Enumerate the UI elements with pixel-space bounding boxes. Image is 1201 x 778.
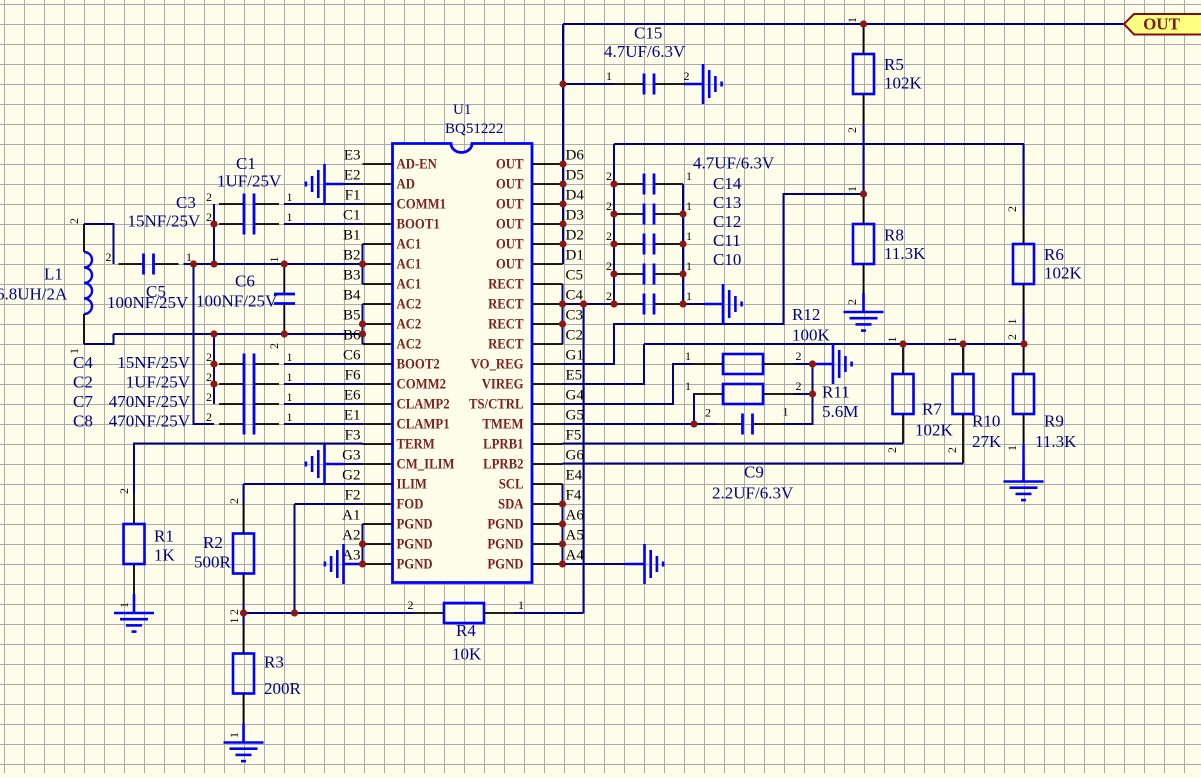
junction (614,304): [610, 300, 617, 307]
junction (362.5,544): [359, 540, 366, 547]
resistor R7: [893, 374, 914, 414]
svg-text:R5: R5: [884, 55, 904, 74]
wire cap bank left bracket: [613, 144, 615, 304]
pin E6 (CLAMP2): [344, 388, 450, 412]
svg-text:PGND: PGND: [397, 556, 433, 572]
ground at AD pin: [306, 164, 344, 204]
wire C1/C3 left join: [213, 204, 215, 264]
svg-text:AD-EN: AD-EN: [397, 156, 437, 172]
pin A1 (PGND): [342, 508, 433, 532]
junction (614,274): [610, 270, 617, 277]
svg-text:B4: B4: [343, 288, 361, 304]
junction (193.5,264): [190, 260, 197, 267]
svg-text:TS/CTRL: TS/CTRL: [469, 396, 524, 412]
svg-text:TERM: TERM: [397, 436, 435, 452]
svg-text:AD: AD: [397, 176, 416, 192]
junction (563,224): [559, 220, 566, 227]
svg-text:10K: 10K: [452, 645, 482, 664]
wire TS/CTRL to R12: [563, 364, 694, 404]
svg-text:200R: 200R: [264, 679, 302, 698]
svg-text:100K: 100K: [792, 326, 831, 345]
wire L1 pin1 to AC2: [84, 334, 114, 344]
R6 pins: [1023, 214, 1025, 244]
junction (563,84): [559, 80, 566, 87]
svg-text:1: 1: [685, 349, 691, 363]
svg-text:COMM2: COMM2: [397, 376, 447, 392]
svg-text:AC2: AC2: [397, 336, 422, 352]
wire AC1 pin bracket: [362, 244, 364, 284]
svg-text:C3: C3: [566, 308, 584, 324]
svg-text:1: 1: [287, 210, 293, 224]
svg-text:F5: F5: [566, 428, 582, 444]
ground at R12: [814, 344, 852, 384]
svg-text:RECT: RECT: [488, 276, 523, 292]
junction (683,214): [679, 210, 686, 217]
junction (284.3,264): [281, 260, 288, 267]
R10 pins: [962, 344, 964, 374]
svg-text:1: 1: [227, 732, 241, 738]
svg-text:AC1: AC1: [397, 276, 422, 292]
svg-text:ILIM: ILIM: [397, 476, 428, 492]
resistor R3: [233, 654, 254, 694]
svg-text:COMM1: COMM1: [397, 196, 447, 212]
pin G5 (TMEM): [482, 408, 583, 432]
pin F5 (LPRB1): [483, 428, 581, 452]
svg-text:BOOT1: BOOT1: [397, 216, 440, 232]
resistor R6: [1013, 244, 1034, 284]
svg-text:C13: C13: [713, 193, 741, 212]
svg-text:2: 2: [705, 406, 711, 420]
junction (563,244): [559, 240, 566, 247]
svg-text:C6: C6: [235, 272, 255, 291]
junction (614,184): [610, 180, 617, 187]
svg-text:G2: G2: [342, 468, 360, 484]
svg-text:LPRB2: LPRB2: [483, 456, 524, 472]
svg-text:L1: L1: [44, 265, 63, 284]
pin G2 (ILIM): [342, 468, 427, 492]
pin F1 (COMM1): [345, 188, 447, 212]
svg-text:1: 1: [845, 17, 859, 23]
svg-text:2.2UF/6.3V: 2.2UF/6.3V: [712, 484, 794, 503]
svg-text:R10: R10: [972, 412, 1000, 431]
wire C9 pin1 riser: [783, 394, 813, 424]
svg-text:4.7UF/6.3V: 4.7UF/6.3V: [604, 42, 686, 61]
svg-text:R3: R3: [264, 653, 284, 672]
pin E1 (CLAMP1): [344, 408, 450, 432]
svg-text:2: 2: [845, 127, 859, 133]
resistor R5: [853, 54, 874, 94]
pin G6 (LPRB2): [483, 448, 584, 472]
resistor R9: [1013, 374, 1034, 414]
pin E2 (AD): [344, 168, 415, 192]
junction (562.5,504): [559, 500, 566, 507]
resistor R12: [723, 354, 763, 374]
svg-text:E5: E5: [566, 368, 583, 384]
wire RECT bus y=144: [614, 143, 1024, 145]
svg-text:D4: D4: [566, 188, 585, 204]
junction (362.5,324): [359, 320, 366, 327]
resistor R1: [124, 524, 145, 564]
wire R4 pin1 to riser: [514, 612, 584, 614]
svg-text:1: 1: [287, 350, 293, 364]
ground at CM_ILIM pin: [306, 444, 344, 484]
svg-text:E4: E4: [566, 468, 583, 484]
svg-text:R4: R4: [456, 621, 476, 640]
capacitor C2: [219, 374, 279, 395]
wire VO_REG to row324: [563, 194, 864, 364]
svg-text:OUT: OUT: [496, 176, 524, 192]
svg-text:1: 1: [1005, 319, 1019, 325]
svg-text:2: 2: [408, 598, 414, 612]
svg-text:R1: R1: [154, 527, 174, 546]
svg-text:2: 2: [227, 498, 241, 504]
svg-text:15NF/25V: 15NF/25V: [117, 353, 190, 372]
junction (284.3,334): [281, 330, 288, 337]
svg-text:C10: C10: [713, 250, 741, 269]
R7 pins: [902, 344, 904, 374]
junction (214,224): [210, 220, 217, 227]
junction (614,214): [610, 210, 617, 217]
svg-text:B5: B5: [343, 308, 361, 324]
ground at R8: [844, 293, 884, 331]
pin D6 (OUT): [496, 148, 584, 172]
svg-text:OUT: OUT: [496, 216, 524, 232]
svg-text:D5: D5: [566, 168, 584, 184]
pin F6 (COMM2): [345, 368, 447, 392]
svg-text:6.8UH/2A: 6.8UH/2A: [0, 285, 68, 304]
svg-text:11.3K: 11.3K: [884, 244, 926, 263]
wire COMM2 row: [284, 383, 363, 385]
svg-text:2: 2: [117, 488, 131, 494]
svg-text:1: 1: [885, 337, 899, 343]
svg-text:AC1: AC1: [397, 256, 422, 272]
wire R6 pin1 stub: [1023, 314, 1025, 344]
svg-text:E3: E3: [344, 148, 361, 164]
capacitor C4: [219, 354, 279, 375]
junction (694,424): [690, 420, 697, 427]
pin F3 (TERM): [345, 428, 435, 452]
svg-text:1: 1: [117, 602, 131, 608]
wire R2 pin1 to node: [243, 604, 245, 614]
wire riser RECT to R4: [583, 304, 585, 613]
svg-text:1: 1: [267, 257, 281, 263]
svg-text:2: 2: [796, 349, 802, 363]
capacitor C5: [119, 254, 179, 275]
svg-text:1UF/25V: 1UF/25V: [217, 172, 282, 191]
R4 pins: [414, 612, 444, 614]
svg-text:C1: C1: [343, 208, 361, 224]
junction (562.5,564): [559, 560, 566, 567]
pin A2 (PGND): [342, 528, 433, 552]
wire FOD riser: [295, 503, 363, 505]
svg-text:BQ51222: BQ51222: [445, 121, 503, 137]
svg-text:2: 2: [227, 609, 241, 615]
R3 pins: [243, 624, 245, 654]
wire R2/R3 node to R4: [244, 612, 415, 614]
svg-text:2: 2: [796, 379, 802, 393]
svg-text:R6: R6: [1044, 245, 1064, 264]
capacitor C11: [614, 264, 683, 285]
wire C15 to OUT bus: [563, 83, 614, 85]
wire R6 pin2 stub: [1023, 144, 1025, 214]
svg-text:SCL: SCL: [499, 476, 524, 492]
pin C3 (RECT): [488, 308, 583, 332]
ground at C10 row: [704, 284, 742, 324]
svg-text:1: 1: [686, 229, 692, 243]
wire RECT row to cap bank: [563, 303, 615, 305]
svg-text:C7: C7: [73, 392, 93, 411]
svg-text:D1: D1: [566, 248, 584, 264]
svg-text:CM_ILIM: CM_ILIM: [397, 456, 455, 472]
junction (563,184): [559, 180, 566, 187]
svg-text:C4: C4: [566, 288, 584, 304]
svg-text:C15: C15: [634, 24, 662, 43]
pin A6 (PGND): [487, 508, 584, 532]
junction (903,344): [899, 340, 906, 347]
capacitor C7: [219, 394, 279, 415]
svg-text:2: 2: [684, 69, 690, 83]
svg-text:E1: E1: [344, 408, 361, 424]
svg-text:SDA: SDA: [498, 496, 524, 512]
ground at R1: [114, 594, 154, 632]
junction (362.5,334): [359, 330, 366, 337]
resistor R2: [233, 534, 254, 574]
svg-text:2: 2: [606, 199, 612, 213]
wire AC1 row264: [184, 263, 363, 265]
svg-text:R8: R8: [884, 226, 904, 245]
svg-text:D3: D3: [566, 208, 584, 224]
wire TERM to R1: [134, 444, 363, 495]
R5 pins: [863, 24, 865, 54]
svg-text:15NF/25V: 15NF/25V: [128, 212, 201, 231]
svg-text:102K: 102K: [1044, 264, 1083, 283]
pin B2 (AC1): [343, 248, 421, 272]
svg-text:1: 1: [606, 69, 612, 83]
pin F4 (SDA): [498, 488, 582, 512]
svg-text:VO_REG: VO_REG: [471, 356, 524, 372]
junction (362.5,264): [359, 260, 366, 267]
svg-text:C11: C11: [713, 231, 741, 250]
svg-text:F6: F6: [345, 368, 361, 384]
svg-text:2: 2: [67, 218, 81, 224]
svg-text:OUT: OUT: [496, 196, 524, 212]
capacitor C13: [614, 204, 683, 225]
wire CLAMP1 row: [284, 423, 363, 425]
svg-text:D2: D2: [566, 228, 584, 244]
svg-text:2: 2: [606, 229, 612, 243]
pin D1 (OUT): [496, 248, 584, 272]
capacitor C10: [614, 294, 683, 315]
junction (863.5,194): [860, 190, 867, 197]
svg-text:AC1: AC1: [397, 236, 422, 252]
svg-text:A4: A4: [566, 548, 585, 564]
capacitor C8: [219, 414, 279, 435]
svg-text:2: 2: [206, 190, 212, 204]
svg-text:F3: F3: [345, 428, 361, 444]
wire BOOT2 row: [284, 363, 363, 365]
wire OUT net top: [563, 23, 1124, 25]
wire R2 pin2 riser: [243, 484, 245, 504]
svg-text:500R: 500R: [194, 553, 232, 572]
pin E4 (SCL): [499, 468, 583, 492]
svg-text:1: 1: [686, 289, 692, 303]
svg-text:PGND: PGND: [487, 556, 523, 572]
resistor R10: [953, 374, 974, 414]
svg-text:B2: B2: [343, 248, 361, 264]
junction (214,384): [210, 380, 217, 387]
ground at R9: [1004, 463, 1044, 501]
svg-text:4.7UF/6.3V: 4.7UF/6.3V: [693, 154, 775, 173]
junction (683,274): [679, 270, 686, 277]
svg-text:F4: F4: [566, 488, 582, 504]
svg-text:D6: D6: [566, 148, 585, 164]
svg-text:1: 1: [287, 370, 293, 384]
svg-text:G5: G5: [566, 408, 584, 424]
svg-text:C5: C5: [566, 268, 584, 284]
svg-text:OUT: OUT: [496, 156, 524, 172]
pin B5 (AC2): [343, 308, 421, 332]
inductor L1: [84, 224, 92, 344]
wire cap bank right bracket: [682, 184, 684, 304]
pin D2 (OUT): [496, 228, 584, 252]
capacitor C3: [219, 214, 279, 235]
svg-text:A1: A1: [342, 508, 360, 524]
svg-text:100NF/25V: 100NF/25V: [107, 293, 189, 312]
junction (562.5,544): [559, 540, 566, 547]
svg-text:1: 1: [845, 186, 859, 192]
svg-text:27K: 27K: [972, 432, 1002, 451]
svg-text:C2: C2: [566, 328, 584, 344]
svg-text:C3: C3: [176, 193, 196, 212]
svg-text:LPRB1: LPRB1: [483, 436, 524, 452]
pin D3 (OUT): [496, 208, 584, 232]
wire COMM1 row: [284, 203, 363, 205]
pin B6 (AC2): [343, 328, 421, 352]
svg-text:B3: B3: [343, 268, 361, 284]
svg-text:PGND: PGND: [397, 516, 433, 532]
ground at C15: [684, 64, 722, 104]
pin C1 (BOOT1): [343, 208, 440, 232]
resistor R8: [853, 224, 874, 264]
svg-text:E6: E6: [344, 388, 361, 404]
svg-text:A2: A2: [342, 528, 360, 544]
capacitor C15: [614, 74, 684, 95]
port OUT: [1124, 14, 1201, 35]
svg-text:C6: C6: [343, 348, 361, 364]
svg-text:G1: G1: [566, 348, 584, 364]
svg-text:CLAMP1: CLAMP1: [397, 416, 450, 432]
IC U1 BQ51222 body: [393, 144, 533, 583]
junction (863.5,24): [860, 20, 867, 27]
junction (812.5,364): [809, 360, 816, 367]
wire TMEM to C9: [563, 423, 718, 425]
wire PGND to ground right: [563, 563, 626, 565]
svg-text:R11: R11: [822, 383, 850, 402]
pin G3 (CM_ILIM): [342, 448, 455, 472]
svg-text:A3: A3: [342, 548, 360, 564]
wire RECT pin bracket: [562, 284, 564, 344]
pin A5 (PGND): [487, 528, 583, 552]
svg-text:1: 1: [686, 199, 692, 213]
svg-text:102K: 102K: [915, 421, 954, 440]
svg-text:VIREG: VIREG: [482, 376, 524, 392]
capacitor C6: [274, 264, 295, 334]
junction (214,334): [210, 330, 217, 337]
R2 pins: [243, 504, 245, 534]
R9 ground stem: [1022, 444, 1024, 463]
pin E5 (VIREG): [482, 368, 582, 392]
svg-text:A5: A5: [566, 528, 584, 544]
pin C5 (RECT): [488, 268, 583, 292]
junction (683,304): [679, 300, 686, 307]
ground at R3: [224, 724, 264, 762]
pin C4 (RECT): [488, 288, 583, 312]
ground at PGND left: [325, 544, 363, 584]
R1 pins: [133, 494, 135, 524]
wire CM_ILIM ground stub: [344, 463, 363, 465]
svg-text:PGND: PGND: [487, 536, 523, 552]
svg-text:G4: G4: [566, 388, 585, 404]
wire VIREG to row344: [563, 344, 645, 384]
svg-text:1: 1: [783, 405, 789, 419]
wire R12 pin2 to ground node: [793, 363, 814, 365]
capacitor C12: [614, 234, 683, 255]
capacitor C1: [219, 194, 279, 215]
wire R3 pin2 stub: [243, 613, 245, 624]
resistor R11: [723, 384, 763, 404]
svg-text:BOOT2: BOOT2: [397, 356, 440, 372]
wire R11 pin1 riser: [693, 394, 695, 424]
svg-text:2: 2: [845, 299, 859, 305]
svg-text:470NF/25V: 470NF/25V: [109, 392, 191, 411]
junction (294.5,613): [291, 609, 298, 616]
svg-text:1: 1: [518, 598, 524, 612]
R11 pins: [693, 393, 723, 395]
pin B4 (AC2): [343, 288, 421, 312]
junction (963,344): [959, 340, 966, 347]
svg-text:C8: C8: [73, 412, 93, 431]
svg-text:C9: C9: [744, 463, 764, 482]
svg-text:R9: R9: [1044, 412, 1064, 431]
pin C2 (RECT): [488, 328, 583, 352]
pin F2 (FOD): [345, 488, 424, 512]
svg-text:A6: A6: [566, 508, 585, 524]
pin C6 (BOOT2): [343, 348, 440, 372]
svg-text:2: 2: [945, 447, 959, 453]
svg-text:2: 2: [606, 169, 612, 183]
svg-text:PGND: PGND: [487, 516, 523, 532]
wire bank riser to C8: [194, 264, 215, 424]
svg-text:C4: C4: [73, 353, 93, 372]
junction (1024,344): [1020, 340, 1027, 347]
svg-text:OUT: OUT: [1143, 15, 1181, 34]
junction (563,204): [559, 200, 566, 207]
pin A4 (PGND): [487, 548, 584, 572]
wire row344 to R6/R9: [644, 343, 1024, 345]
wire LPRB2 to R10: [563, 463, 964, 465]
junction (812.5,394): [809, 390, 816, 397]
svg-text:2: 2: [267, 343, 281, 349]
svg-text:2: 2: [206, 410, 212, 424]
svg-text:RECT: RECT: [488, 296, 523, 312]
svg-text:1: 1: [686, 169, 692, 183]
svg-text:C14: C14: [713, 174, 742, 193]
svg-text:1: 1: [945, 337, 959, 343]
svg-text:PGND: PGND: [397, 536, 433, 552]
capacitor C14: [614, 174, 683, 195]
wire R5 to R8: [863, 124, 865, 194]
svg-text:AC2: AC2: [397, 296, 422, 312]
